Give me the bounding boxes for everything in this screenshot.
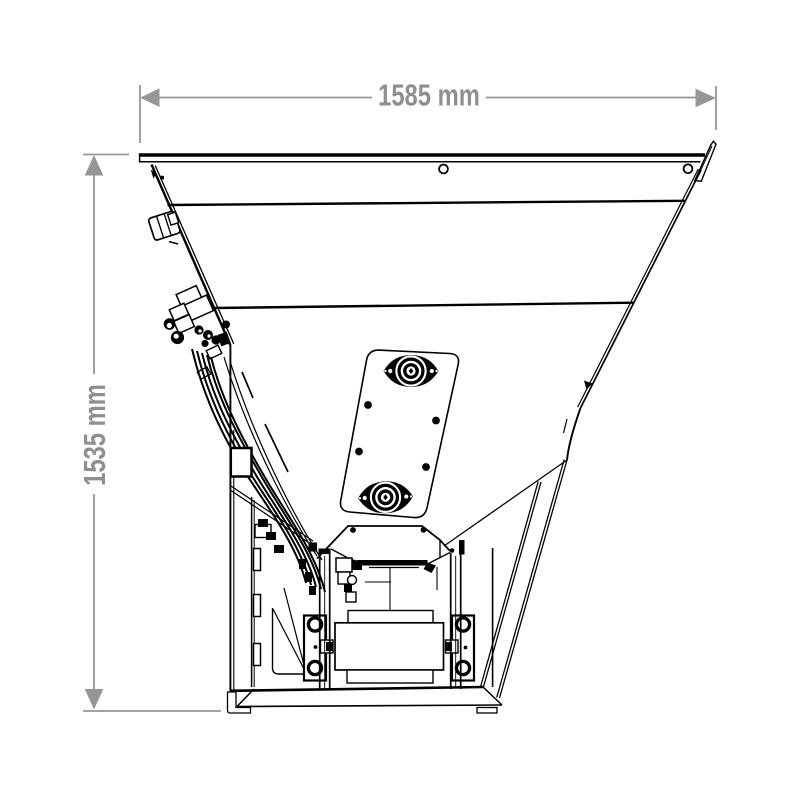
valve fitting holes — [198, 329, 201, 332]
rim bolt hole left — [439, 165, 448, 174]
motor port circle — [348, 576, 357, 585]
right post — [450, 553, 452, 689]
rim square dot left — [160, 176, 164, 180]
left dimension label 1535 mm — [77, 384, 112, 486]
motor dark fitting 1 — [344, 584, 352, 592]
frame gusset — [273, 608, 306, 674]
small valve upper — [148, 210, 182, 241]
chute plate brace left — [331, 549, 350, 559]
hose bundle — [192, 349, 325, 592]
top dimension label 1585 mm — [378, 78, 480, 113]
chute plate brace right — [428, 553, 451, 565]
frame foot left — [228, 692, 251, 713]
left dimension line — [93, 174, 95, 374]
funnel left edge (double line) — [152, 165, 231, 346]
valve port ring 1 — [164, 318, 176, 330]
frame right post — [492, 548, 494, 687]
right bearing block — [452, 616, 474, 681]
valve dark fittings — [194, 321, 230, 348]
chute plate end wedge left — [343, 558, 357, 572]
left dimension arrow bottom — [85, 689, 104, 710]
crease dash 2 — [265, 424, 288, 472]
hose fitting below valve — [197, 367, 210, 379]
frame inner left panel — [251, 497, 253, 687]
frame inner panel rect — [255, 525, 271, 538]
hood outline — [317, 526, 450, 559]
frame slot 2 — [254, 595, 261, 617]
right edge bend — [567, 408, 581, 460]
chute plate top band — [357, 560, 428, 566]
mounting plate — [340, 350, 458, 518]
flange bearing lower — [357, 480, 413, 514]
right wall pier inner (double) — [483, 482, 541, 688]
rim bolt hole right — [684, 164, 693, 173]
valve port ring 2 — [171, 331, 184, 344]
small valve lower tick — [169, 242, 178, 245]
svg-text:1585 mm: 1585 mm — [378, 78, 480, 113]
chute plate right rib — [436, 567, 438, 590]
motor body — [335, 623, 444, 670]
funnel fold line upper — [168, 201, 685, 205]
top dimension line — [158, 97, 372, 99]
top dimension extension line left — [139, 85, 141, 143]
right wall pier outer (double) — [500, 460, 568, 698]
frame slot 3 — [254, 644, 261, 666]
funnel fold line lower — [215, 303, 634, 308]
top dimension arrow right — [696, 89, 717, 108]
left dimension arrow top — [85, 155, 104, 176]
funnel bottom-left edge (double) — [231, 486, 313, 541]
hood corner bolt right — [421, 527, 427, 533]
post cap block left outer — [309, 543, 318, 552]
left bearing block — [304, 616, 326, 681]
plate bolt 4 — [422, 463, 430, 471]
funnel bottom-right edge — [444, 460, 567, 546]
motor top band — [348, 611, 433, 623]
frame bracket — [231, 448, 252, 477]
left dimension extension line bottom — [83, 710, 221, 712]
plate bolt 3 — [355, 448, 363, 456]
hood right corner edge — [439, 540, 441, 558]
frame left edge — [229, 345, 231, 692]
motor dark fitting 2 — [352, 562, 362, 570]
chute plate end wedge right — [424, 563, 437, 574]
mark on right edge — [584, 381, 593, 390]
left dimension extension line top — [83, 154, 129, 156]
flange bearing upper — [384, 355, 439, 387]
rim tick left (edge arrow) — [151, 170, 157, 179]
plate bolt 2 — [432, 417, 440, 425]
rim end flap right — [695, 141, 716, 181]
chute plate bottom edge — [369, 567, 419, 569]
motor bottom band — [347, 670, 433, 683]
top dimension arrow left — [140, 88, 160, 107]
funnel right edge (double line) — [581, 170, 702, 408]
hopper top rim — [139, 154, 705, 163]
hood corner bolt left — [350, 527, 356, 533]
hose step blocks — [258, 519, 316, 595]
frame bottom rail — [230, 687, 483, 691]
bend dash — [564, 419, 568, 433]
gearbox shaft line — [389, 568, 391, 612]
svg-text:1535 mm: 1535 mm — [77, 384, 112, 486]
hydraulic motor fittings — [336, 558, 356, 602]
main valve assembly — [169, 286, 213, 334]
top dimension extension line right — [715, 86, 717, 130]
hose guide curves — [224, 357, 322, 560]
rim end flap inner line — [698, 146, 712, 177]
left post — [319, 549, 321, 689]
gearbox cross line — [365, 581, 391, 583]
crease dash 1 — [242, 372, 253, 398]
hose clamp below valve — [206, 345, 222, 359]
plate bolt 1 — [364, 401, 372, 409]
frame foot right — [477, 708, 497, 714]
frame slot 1 — [254, 549, 261, 571]
